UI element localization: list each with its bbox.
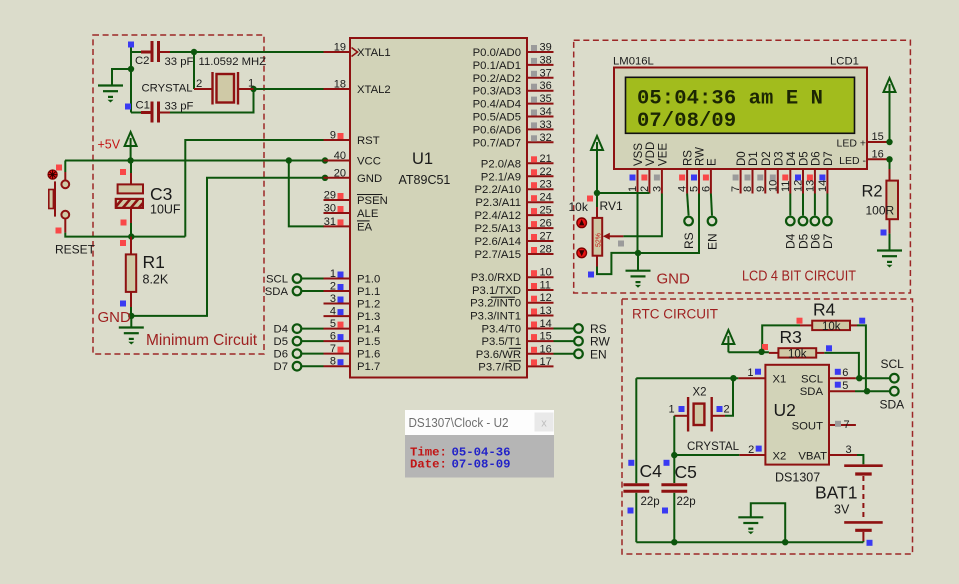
U1 pin 6 (P1.5) [324,331,381,349]
svg-text:23: 23 [540,179,552,191]
svg-text:P3.1/TXD: P3.1/TXD [472,285,521,297]
svg-text:14: 14 [817,180,829,192]
wire C5 bottom to ground rail [673,493,675,542]
svg-text:D7: D7 [274,361,288,373]
wire SDA net with terminal [855,390,890,392]
wire C4 top to X1 net [635,378,637,483]
svg-text:P1.7: P1.7 [357,361,380,373]
wire RW to ground junction [638,194,699,254]
svg-text:22: 22 [540,166,552,178]
wire junction to U2 X2 pin [674,454,739,456]
svg-text:VBAT: VBAT [798,450,827,462]
node R1 top state square [120,240,126,246]
U1 pin 4 (P1.3) [324,306,381,324]
U1 pin 10 (P3.0/RXD) [471,267,554,285]
terminal SCL (left) [293,274,302,283]
svg-text:26: 26 [540,218,552,230]
svg-text:X1: X1 [773,374,787,386]
U1 pin 8 (P1.7) [324,356,381,374]
U1 pin 31 (EA) [324,216,373,234]
svg-text:P3.7/RD: P3.7/RD [478,361,521,373]
LCD pin 6 (E) [700,158,718,194]
wire button top to rail [64,161,66,173]
svg-text:D1: D1 [748,151,760,166]
svg-text:8.2K: 8.2K [143,273,169,287]
terminal RW (right of U1) [574,337,583,346]
U1 pin 25 (P2.4/A12) [475,205,554,223]
wire C2 left plate to left vertical [131,51,151,53]
wire XTAL2 net (crystal pin1 to U1 XTAL2 pin18) [254,88,324,90]
wire U1 GND pin20 return [131,178,326,316]
dialog close button [535,413,554,432]
U1 pin 16 (P3.6/WR) [476,343,554,361]
svg-text:29: 29 [324,190,336,202]
resistor R3 10k [769,348,824,357]
svg-text:X2: X2 [693,387,707,399]
node LED- junction [886,156,892,162]
svg-text:15: 15 [540,331,552,343]
Minimum Circuit boundary box [93,35,264,354]
svg-text:C1: C1 [136,100,150,112]
svg-text:P2.0/A8: P2.0/A8 [481,158,521,170]
svg-text:38: 38 [540,54,552,66]
node C3/R1 junction [128,233,134,239]
wire VEE to RV1 wiper [623,194,662,237]
wire XTAL1 net (C2 right plate to U1 XTAL1 pin19) [160,51,324,53]
svg-text:C3: C3 [150,184,172,204]
svg-text:ALE: ALE [357,208,379,220]
button actuator red indicator [48,170,57,179]
LCD pin 12 (D5) [793,151,811,193]
svg-text:12: 12 [793,180,805,192]
LCD pin 8 (D1) [742,151,760,193]
svg-text:2: 2 [196,78,202,90]
wire R3 right to SCL net [824,353,859,378]
U1 pin 3 (P1.2) [324,293,381,311]
node C4 top state square [628,460,634,466]
node crystal top junction [191,49,197,55]
svg-text:11: 11 [540,280,551,292]
node button top state square [56,165,62,171]
node BAT1 bottom state square [867,540,873,546]
svg-text:12: 12 [540,292,552,304]
U1 pin 12 (P3.2/INT0) [470,292,553,310]
svg-text:10: 10 [540,267,552,279]
svg-text:VEE: VEE [657,143,669,166]
svg-text:AT89C51: AT89C51 [399,173,451,187]
terminal SDA (left) [293,287,302,296]
LCD pin 9 (D2) [755,151,773,193]
svg-text:25: 25 [540,205,552,217]
U1 pin 7 (P1.6) [324,343,381,361]
U1 pin 34 (P0.5/AD5) [473,106,554,124]
svg-text:D3: D3 [773,151,785,166]
svg-text:10UF: 10UF [150,203,181,217]
resistor R4 10k [800,321,857,330]
svg-text:VCC: VCC [357,156,381,168]
svg-text:36: 36 [540,80,552,92]
wire crystal pin2 riser [193,52,195,89]
svg-text:1: 1 [669,404,675,416]
wire rail to RTC ground symbol [751,503,785,542]
svg-text:P1.1: P1.1 [357,286,380,298]
svg-text:EN: EN [705,233,719,250]
node GND pin junction [322,175,328,181]
svg-text:10k: 10k [788,349,807,361]
svg-text:11: 11 [780,181,792,192]
wire U1 to terminal EN [554,353,575,355]
wire LCD D6 down [814,194,816,216]
LCD 4 BIT CIRCUIT boundary box [574,40,911,293]
wire VDD to RV1 top [597,192,649,194]
node RV1 wiper state square [618,241,624,247]
node C3 top state square [120,169,126,175]
svg-text:SCL: SCL [881,357,905,371]
node crystal pin1 junction [250,86,256,92]
crystal X2 [674,397,725,432]
wire R4 right to SDA net [857,325,866,391]
svg-text:P3.2/INT0: P3.2/INT0 [470,298,521,310]
node X2 pin1 state square [679,406,685,412]
terminal D5 (LCD side) [799,217,808,226]
svg-text:1: 1 [627,186,639,192]
wire BAT1 bottom to rail [862,541,864,542]
node C4 bottom state square [628,508,634,514]
svg-text:21: 21 [540,153,552,165]
terminal D6 (LCD side) [811,217,820,226]
svg-text:P2.7/A15: P2.7/A15 [475,249,521,261]
power symbol above RV1 [591,136,603,193]
svg-text:14: 14 [540,318,552,330]
svg-text:P0.4/AD4: P0.4/AD4 [473,99,521,111]
node +5V rail junction [127,157,133,163]
svg-text:22p: 22p [641,496,660,508]
U1 pin 32 (P0.7/AD7) [473,132,554,150]
svg-text:P1.2: P1.2 [357,299,380,311]
svg-text:P2.3/A11: P2.3/A11 [475,197,521,209]
U1 pin 9 (RST) [324,130,380,148]
svg-text:P3.4/T0: P3.4/T0 [481,324,521,336]
wire R1 bottom to ground node [130,307,132,316]
wire RST net riser and run to pin 9 [185,140,324,237]
svg-text:9: 9 [755,186,767,192]
svg-text:10: 10 [767,180,779,192]
node R1 bottom state square [120,301,126,307]
U1 pin 26 (P2.5/A13) [475,218,554,236]
svg-text:RS: RS [683,150,695,166]
terminal SCL (RTC) [890,374,899,383]
svg-text:EA: EA [357,221,373,233]
svg-text:P0.0/AD0: P0.0/AD0 [473,47,521,59]
node R4 right state square [859,318,865,324]
svg-text:SDA: SDA [800,386,824,398]
node ground branch junction [128,66,134,72]
svg-text:P0.2/AD2: P0.2/AD2 [473,73,521,85]
svg-text:31: 31 [324,216,336,228]
svg-text:15: 15 [872,131,884,143]
LCD pin 13 (D6) [804,151,822,193]
svg-text:05:04:36 am E N: 05:04:36 am E N [637,88,823,111]
svg-text:P0.3/AD3: P0.3/AD3 [473,86,521,98]
svg-text:17: 17 [540,356,552,368]
svg-text:LCD 4 BIT CIRCUIT: LCD 4 BIT CIRCUIT [742,269,856,285]
node SDA junction [864,388,870,394]
svg-text:VDD: VDD [645,142,657,166]
RV1 increment button [577,218,587,228]
wire R2 to ground [889,234,891,251]
U1 pin 1 (P1.0) [324,268,381,286]
U1 pin 39 (P0.0/AD0) [473,42,554,60]
svg-text:RS: RS [682,232,696,249]
node C5 rail junction [671,539,677,545]
node X2 pin2 state square [717,406,723,412]
node R2 bottom state square [881,230,887,236]
node ground rail junction [782,539,788,545]
svg-text:SDA: SDA [880,398,905,412]
LCD pin 10 (D3) [767,151,785,193]
svg-text:Date:: Date: [410,457,447,471]
wire to crystal ground [112,69,131,86]
wire VCC rail [65,160,325,162]
U2 pin 5 (SDA) [800,380,855,398]
wire LCD D7 down [826,194,828,216]
svg-text:RV1: RV1 [600,199,623,213]
svg-text:D2: D2 [761,151,773,166]
svg-text:P2.5/A13: P2.5/A13 [475,223,521,235]
svg-text:P3.3/INT1: P3.3/INT1 [470,311,521,323]
terminal D7 (LCD side) [823,217,832,226]
svg-text:28: 28 [540,244,552,256]
svg-text:2: 2 [748,444,754,456]
capacitor C2 [141,41,170,62]
svg-text:07-08-09: 07-08-09 [452,457,511,471]
svg-text:5: 5 [330,318,336,330]
ground (R2) [877,251,902,268]
LCD display LCD1 body [614,68,867,170]
power symbol (RTC pullups) [722,330,734,352]
svg-text:R4: R4 [813,300,836,320]
svg-text:U2: U2 [774,400,796,420]
capacitor C3 (electrolytic) [113,161,148,224]
capacitor C4 22p [623,485,649,491]
svg-text:16: 16 [872,148,884,160]
node VCC pin junction [322,157,328,163]
svg-text:16: 16 [540,343,552,355]
U1 pin 35 (P0.4/AD4) [473,93,554,111]
U1 pin 14 (P3.4/T0) [481,318,553,336]
ground (RTC) [738,517,763,534]
wire crystal pin1 to C5 and U2 X2 [673,416,675,483]
svg-text:33: 33 [540,119,552,131]
svg-text:EN: EN [590,347,607,361]
U2 pin 1 (X1) [738,367,786,386]
wire D5 to U1 [302,340,324,342]
U1 pin 27 (P2.6/A14) [475,231,554,249]
LCD pin 11 (D4) [780,151,798,194]
svg-text:D7: D7 [823,151,835,166]
terminal SDA (RTC) [890,387,899,396]
svg-text:RW: RW [695,147,707,166]
svg-text:RST: RST [357,135,380,147]
svg-text:22p: 22p [677,496,696,508]
svg-text:10k: 10k [569,200,589,214]
svg-text:VSS: VSS [633,143,645,166]
svg-text:P1.5: P1.5 [357,336,380,348]
svg-text:35: 35 [540,93,552,105]
svg-text:30: 30 [324,203,336,215]
svg-text:34: 34 [540,106,552,118]
svg-text:P2.4/A12: P2.4/A12 [475,210,521,222]
svg-text:BAT1: BAT1 [815,483,857,503]
svg-text:C5: C5 [675,462,697,482]
svg-text:SCL: SCL [801,374,823,386]
wire R3 junction to power [728,351,769,353]
svg-text:D6: D6 [810,151,822,166]
svg-text:D7: D7 [821,233,835,249]
svg-text:2: 2 [724,404,730,416]
svg-text:8: 8 [330,356,336,368]
terminal D5 (left) [293,337,302,346]
svg-text:24: 24 [540,192,552,204]
svg-text:8: 8 [742,186,754,192]
U1 pin 36 (P0.3/AD3) [473,80,554,98]
wire X1 net to crystal [636,377,738,379]
svg-text:9: 9 [330,130,336,142]
svg-text:GND: GND [657,271,691,288]
U1 pin 11 (P3.1/TXD) [472,280,553,298]
svg-text:D6: D6 [274,349,288,361]
U1 pin 2 (P1.1) [324,281,381,299]
svg-text:7: 7 [730,186,742,192]
op-amp U1 body (AT89C51 microcontroller) [350,38,527,378]
LCD pin 5 (RW) [689,147,707,194]
LCD pin 3 (VEE) [651,143,669,194]
svg-text:11.0592 MHZ: 11.0592 MHZ [199,56,267,68]
node X1 junction [730,375,736,381]
svg-text:27: 27 [540,231,552,243]
svg-text:D5: D5 [274,336,288,348]
U2 pin 7 (SOUT) [792,419,856,432]
U2 pin 6 (SCL) [801,367,856,385]
LCD pin 15 (LED+) [837,131,889,150]
U2 pin 2 (X2) [739,444,786,463]
U1 pin 24 (P2.3/A11) [475,192,553,210]
U1 pin 22 (P2.1/A9) [481,166,554,184]
svg-text:LED +: LED + [837,138,866,150]
svg-text:CRYSTAL: CRYSTAL [687,441,740,453]
svg-text:3: 3 [846,444,852,456]
RTC CIRCUIT boundary box [622,299,913,554]
pin XTAL1 input chevron [352,48,358,57]
svg-text:GND: GND [357,173,382,185]
wire SCL net with terminal [856,377,890,379]
svg-text:P3.6/WR: P3.6/WR [476,349,521,361]
svg-text:32: 32 [540,132,552,144]
svg-text:LED -: LED - [839,155,866,167]
svg-text:LM016L: LM016L [613,56,654,68]
node GND junction (minimum circuit) [128,313,134,319]
svg-text:P3.0/RXD: P3.0/RXD [471,272,521,284]
U1 pin 13 (P3.3/INT1) [470,305,553,323]
svg-text:R2: R2 [862,183,883,201]
U1 pin 15 (P3.5/T1) [481,331,553,349]
wire C4 bottom to ground rail [635,493,637,542]
node R3 left state square [762,344,768,350]
svg-text:3: 3 [330,293,336,305]
U1 pin 37 (P0.2/AD2) [473,67,554,85]
svg-text:+5V: +5V [98,138,121,152]
node button bottom state square [56,228,62,234]
svg-text:P1.6: P1.6 [357,349,380,361]
U1 pin 20 (GND) [324,167,383,185]
U1 pin 17 (P3.7/RD) [478,356,553,374]
wire SCL to U1 [302,278,324,280]
node C5 bottom state square [662,508,668,514]
wire SDA to U1 [302,290,324,292]
node RV1 top state square [587,196,593,202]
U1 pin 30 (ALE) [324,203,379,221]
wire LCD D4 down [789,194,791,216]
svg-text:7: 7 [330,343,336,355]
node R3/R4 pullup junction [758,349,764,355]
svg-text:RESET: RESET [55,243,96,257]
U1 pin 33 (P0.6/AD6) [473,119,554,136]
LCD pin 14 (D7) [817,151,835,193]
wire D6 to U1 [302,353,324,355]
svg-text:07/08/09: 07/08/09 [637,110,736,133]
wire C3 bottom to junction [130,223,132,237]
capacitor C5 22p [661,485,687,491]
push button RESET [49,180,69,218]
node crystal/C5/X2 junction [671,452,677,458]
transistor U2 body (DS1307 RTC) [765,365,829,465]
resistor R1 [130,237,132,255]
wire RTC ground rail [636,541,863,543]
svg-text:SCL: SCL [266,274,288,286]
node RV1 bottom state square [588,272,594,278]
wire C1 left plate to left vertical [131,112,151,114]
node LCD ground junction [635,250,641,256]
svg-text:100R: 100R [866,204,895,218]
svg-text:18: 18 [334,79,346,91]
svg-text:SDA: SDA [265,286,289,298]
svg-text:7: 7 [844,419,850,431]
svg-text:P2.2/A10: P2.2/A10 [475,184,521,196]
node EA branch junction [286,157,292,163]
resistor R2 [889,169,891,181]
svg-text:XTAL2: XTAL2 [357,84,391,96]
wire crystal pin2 riser to X1 [725,378,733,416]
svg-text:LCD1: LCD1 [830,56,859,68]
node SCL junction [856,375,862,381]
node R4 left state square [797,318,803,324]
svg-text:SOUT: SOUT [792,420,823,432]
wire D4 to U1 [302,328,324,330]
svg-text:P1.3: P1.3 [357,311,380,323]
svg-text:GND: GND [98,309,132,326]
power +5V symbol [125,132,137,161]
svg-text:13: 13 [804,180,816,192]
terminal EN (right of U1) [574,350,583,359]
LCD pin 1 (VSS) [627,143,645,194]
terminal D6 (left) [293,349,302,358]
svg-text:P0.1/AD1: P0.1/AD1 [473,60,521,72]
RV1 decrement button [577,248,587,258]
node C5 top state square [664,460,670,466]
svg-text:P1.4: P1.4 [357,324,380,336]
svg-text:37: 37 [540,67,552,79]
ground (LCD) [637,253,639,271]
